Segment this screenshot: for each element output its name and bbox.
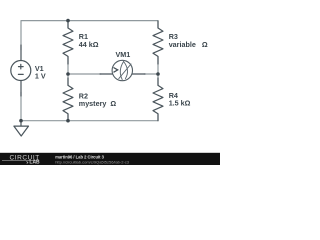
svg-text:LAB: LAB [29,160,40,165]
svg-text:VM1: VM1 [116,50,131,59]
svg-text:1.5 kΩ: 1.5 kΩ [169,99,191,108]
svg-text:variable Ω: variable Ω [169,40,208,49]
svg-text:mystery Ω: mystery Ω [79,99,117,108]
svg-text:http.//circuitlab.com/c/9Qa5t5: http.//circuitlab.com/c/9Qa5t5z56/lab-2-… [55,160,130,165]
svg-text:44 kΩ: 44 kΩ [79,40,99,49]
svg-text:1 V: 1 V [35,72,46,81]
